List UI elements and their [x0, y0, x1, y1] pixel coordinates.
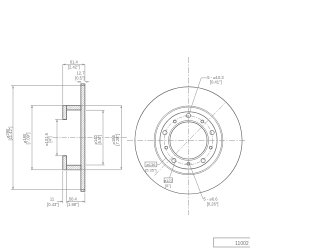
svg-text:[7.28"]: [7.28"] [115, 134, 120, 146]
svg-text:[1.98"]: [1.98"] [67, 202, 79, 207]
svg-text:11002: 11002 [235, 241, 249, 247]
svg-text:[2.42"]: [2.42"] [68, 64, 80, 69]
svg-text:[7.09"]: [7.09"] [25, 133, 30, 145]
svg-text:[5"]: [5"] [165, 183, 171, 188]
svg-text:[5.35"]: [5.35"] [145, 167, 156, 172]
svg-text:[0.5"]: [0.5"] [75, 76, 84, 81]
svg-text:[11.42"]: [11.42"] [8, 127, 13, 141]
svg-text:[0.41"]: [0.41"] [210, 80, 222, 85]
svg-text:[5.5"]: [5.5"] [97, 135, 102, 144]
svg-text:[0.43"]: [0.43"] [47, 202, 59, 207]
svg-text:⌀127: ⌀127 [164, 178, 174, 183]
svg-text:[4"]: [4"] [48, 136, 53, 142]
svg-text:⌀136: ⌀136 [146, 162, 156, 167]
svg-text:[0.26"]: [0.26"] [207, 202, 219, 207]
